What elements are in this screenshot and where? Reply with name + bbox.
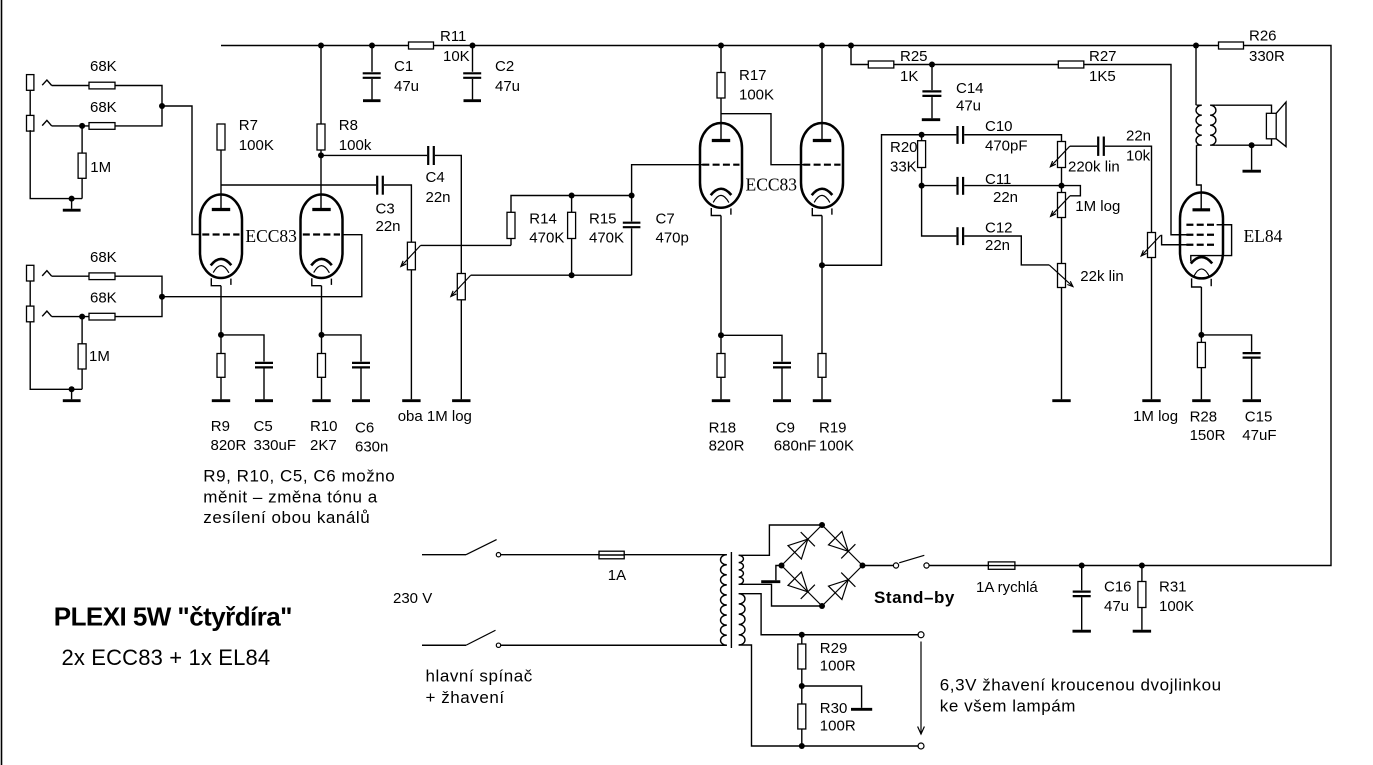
wire P1 wiper to R14	[421, 244, 511, 246]
diode D4	[829, 573, 856, 600]
node rail C2	[470, 43, 476, 49]
svg-text:100R: 100R	[820, 718, 856, 735]
wire J4 tip to R5	[52, 316, 89, 318]
svg-text:470K: 470K	[589, 229, 624, 246]
svg-text:R14: R14	[529, 211, 557, 228]
svg-text:820R: 820R	[709, 438, 745, 455]
svg-text:C11: C11	[985, 171, 1011, 188]
wire P2 wiper to R15 C7	[471, 274, 632, 276]
potentiometer P4 1M log	[1051, 186, 1070, 264]
svg-text:470K: 470K	[529, 229, 564, 246]
wire V2b cathode to tone network	[822, 135, 956, 266]
node bridge right	[860, 563, 866, 569]
resistor R30 100R	[798, 704, 806, 746]
diode D3	[788, 572, 815, 599]
svg-text:10k: 10k	[1126, 148, 1151, 165]
svg-text:R30: R30	[820, 700, 848, 717]
potentiometer P3 220k lin	[1050, 142, 1069, 186]
tube V3 EL84	[1180, 193, 1223, 288]
svg-text:C10: C10	[985, 118, 1013, 135]
svg-text:330R: 330R	[1249, 48, 1285, 65]
node R20 bottom	[919, 183, 925, 189]
capacitor C3 22n	[377, 176, 383, 195]
svg-text:68K: 68K	[90, 290, 117, 307]
node rail output transformer	[1193, 43, 1199, 49]
wire bridge plus to standby switch	[863, 565, 895, 567]
svg-text:1M log: 1M log	[1075, 198, 1120, 215]
wire T2 secondary bottom to speaker	[1215, 139, 1271, 145]
svg-text:R17: R17	[739, 67, 767, 84]
svg-text:C5: C5	[254, 418, 273, 435]
wire F1 to T1 primary	[624, 554, 727, 556]
resistor R18 820R	[712, 335, 730, 400]
resistor R29 100R	[798, 635, 806, 704]
node R15 bottom	[569, 272, 575, 278]
node bridge top	[819, 522, 825, 528]
svg-text:100k: 100k	[339, 137, 372, 154]
svg-text:2K7: 2K7	[310, 437, 337, 454]
svg-text:R9: R9	[211, 418, 230, 435]
svg-text:R20: R20	[890, 139, 918, 156]
wire HV secondary bottom to bridge	[739, 584, 822, 606]
wire C10 to 220k pot	[964, 135, 1061, 142]
wire C11 line	[922, 185, 957, 187]
wire V2b cathode	[821, 216, 823, 266]
node V2b cathode	[819, 262, 825, 268]
resistor R9 820R	[212, 335, 230, 401]
svg-text:R28: R28	[1190, 409, 1218, 426]
resistor R7 100K	[217, 124, 225, 209]
node rail R25 tap	[848, 43, 854, 49]
wire HV secondary top to bridge	[739, 525, 822, 555]
resistor R28 150R	[1192, 335, 1210, 401]
resistor R11 10K	[409, 42, 434, 49]
svg-text:R26: R26	[1249, 28, 1277, 45]
wire R20 bottom to C12	[922, 186, 957, 236]
wire J1 tip to R1	[52, 85, 89, 87]
wire T2 secondary top to speaker	[1215, 105, 1271, 113]
svg-text:150R: 150R	[1190, 427, 1226, 444]
ground A	[63, 199, 81, 211]
svg-text:ECC83: ECC83	[245, 226, 297, 246]
svg-text:C7: C7	[656, 211, 675, 228]
svg-text:47u: 47u	[495, 78, 520, 95]
svg-text:10K: 10K	[443, 48, 470, 65]
resistor R1 68K	[89, 82, 115, 89]
svg-text:C9: C9	[776, 420, 795, 437]
resistor R26 330R	[1219, 42, 1244, 49]
tube V2a ECC83	[700, 123, 742, 216]
svg-text:230 V: 230 V	[393, 590, 432, 607]
wire C12 to 22k wiper	[964, 236, 1049, 265]
svg-text:22n: 22n	[993, 189, 1018, 206]
transformer T1 HV secondary winding	[739, 555, 744, 584]
svg-text:1M: 1M	[90, 159, 111, 176]
svg-text:R9, R10, C5, C6 možno: R9, R10, C5, C6 možno	[203, 467, 395, 486]
ground bridge minus	[761, 566, 781, 582]
node J4-R6 junction	[79, 314, 85, 320]
svg-text:zesílení obou kanálů: zesílení obou kanálů	[203, 508, 370, 527]
svg-text:22n: 22n	[985, 237, 1010, 254]
node V2a cathode	[718, 332, 724, 338]
svg-text:680nF: 680nF	[774, 438, 817, 455]
svg-text:68K: 68K	[90, 249, 117, 266]
node C7 top grid	[629, 193, 635, 199]
potentiometer P5 22k lin	[1049, 264, 1073, 401]
svg-text:C16: C16	[1104, 579, 1132, 596]
svg-text:R27: R27	[1089, 48, 1117, 65]
node rail R17	[718, 43, 724, 49]
resistor R5 68K	[89, 313, 115, 320]
svg-text:R18: R18	[709, 420, 737, 437]
resistor R27 1K5	[1058, 61, 1084, 68]
svg-text:C12: C12	[985, 219, 1013, 236]
node V1a cathode	[218, 332, 224, 338]
wire S1 to F1	[500, 554, 599, 556]
wire J2 tip to R2	[52, 125, 89, 127]
svg-text:ke všem lampám: ke všem lampám	[940, 697, 1076, 716]
node ground B junction	[69, 386, 75, 392]
wire anode V1b to C4	[321, 154, 427, 156]
potentiometer P1 1M log	[401, 242, 421, 401]
node R30 bottom	[799, 743, 805, 749]
resistor R2 68K	[89, 123, 115, 130]
wire R25 tap	[851, 46, 868, 65]
wire heater winding bottom to terminal	[739, 645, 919, 746]
resistor R17 100K	[717, 46, 725, 141]
svg-text:C2: C2	[495, 58, 514, 75]
svg-text:820R: 820R	[211, 437, 247, 454]
resistor R3 1M	[78, 126, 86, 199]
ground speaker	[1243, 145, 1261, 171]
wire EL84 g3 to cathode tie	[1191, 225, 1232, 262]
svg-text:oba 1M log: oba 1M log	[398, 408, 472, 425]
svg-text:2x ECC83 + 1x EL84: 2x ECC83 + 1x EL84	[62, 645, 271, 670]
wire V2a anode to V2b grid	[721, 114, 804, 165]
wire R5 to node B	[115, 297, 162, 317]
terminal heater bottom	[918, 743, 924, 749]
resistor R4 68K	[89, 273, 115, 280]
capacitor C10 470pF	[958, 126, 964, 144]
resistor R15 470K	[568, 196, 576, 276]
capacitor C14 47u	[922, 65, 942, 120]
svg-text:měnit – změna tónu a: měnit – změna tónu a	[203, 487, 377, 506]
transformer T2 primary winding	[1196, 105, 1202, 145]
capacitor C4 22n	[428, 146, 434, 165]
wire rail R26 to right edge and down	[1015, 46, 1331, 566]
node R8 anode junction	[318, 152, 324, 158]
node V1b cathode	[319, 332, 325, 338]
svg-text:R25: R25	[900, 48, 928, 65]
wire R2 to node A	[115, 106, 162, 126]
svg-text:R19: R19	[819, 420, 847, 437]
capacitor C5 330uF	[221, 335, 273, 401]
capacitor C2 47u	[463, 46, 481, 101]
switch S1 mains upper	[422, 540, 501, 557]
wire S2 to T1 primary bottom	[500, 644, 727, 646]
bridge diamond wires	[782, 525, 863, 606]
wire B+ rail top	[221, 45, 409, 47]
resistor R19 100K	[813, 265, 831, 400]
potentiometer P2 1M log	[451, 274, 471, 401]
arrow heater direction	[918, 642, 925, 735]
wire anode V1a to C3	[221, 184, 376, 186]
wire C4 to pot P2	[435, 155, 461, 273]
resistor R20 33K	[918, 135, 926, 186]
node R20 top	[919, 132, 925, 138]
transformer T1 core	[730, 552, 732, 648]
jack J1 input A1	[27, 75, 52, 91]
svg-text:22k lin: 22k lin	[1080, 268, 1123, 285]
svg-text:22n: 22n	[426, 189, 451, 206]
svg-text:EL84: EL84	[1244, 226, 1283, 246]
svg-text:1A: 1A	[608, 567, 626, 584]
wire R25 to R27	[894, 64, 1059, 66]
wire V1a cathode	[220, 286, 222, 335]
svg-text:R15: R15	[589, 211, 617, 228]
wire node B to V1b grid	[162, 235, 362, 297]
wire S3 to F2	[929, 565, 989, 567]
svg-text:PLEXI 5W "čtyřdíra": PLEXI 5W "čtyřdíra"	[54, 602, 292, 632]
wire V1b cathode	[321, 286, 323, 335]
svg-text:R31: R31	[1159, 579, 1187, 596]
node B channel B mix	[159, 294, 165, 300]
diode D1	[788, 532, 815, 559]
resistor R6 1M	[78, 317, 86, 390]
node EL84 cathode	[1198, 332, 1204, 338]
wire grid node to V2a grid	[632, 165, 703, 196]
capacitor C11 22n	[958, 177, 964, 195]
svg-text:hlavní spínač: hlavní spínač	[426, 667, 533, 686]
wire J4 sleeve down to ground B	[30, 322, 82, 390]
capacitor C13 22n	[1098, 137, 1104, 156]
border left edge	[1, 0, 3, 765]
svg-text:C15: C15	[1245, 409, 1273, 426]
wire V2b plate to rail	[821, 46, 823, 141]
diode D2	[829, 532, 856, 559]
resistor R10 2K7	[312, 335, 330, 401]
node J2-R3 junction	[79, 123, 85, 129]
svg-text:Stand–by: Stand–by	[874, 588, 955, 607]
wire rail to output transformer primary	[1195, 46, 1197, 106]
svg-text:C14: C14	[956, 80, 984, 97]
wire T2 primary to EL84 plate	[1197, 145, 1202, 209]
svg-text:1K: 1K	[900, 68, 918, 85]
node speaker ground junction	[1249, 142, 1255, 148]
svg-text:22n: 22n	[376, 218, 401, 235]
capacitor C6 630n	[322, 335, 371, 401]
wire rail R11 to R26	[434, 45, 1219, 47]
node R29 top	[799, 632, 805, 638]
svg-text:1M log: 1M log	[1133, 408, 1178, 425]
svg-text:C6: C6	[355, 420, 374, 437]
wire heater winding top to terminal	[739, 594, 919, 635]
capacitor C1 47u	[363, 46, 381, 101]
svg-text:630n: 630n	[355, 439, 388, 456]
wire P6 wiper to EL84 grid	[1161, 235, 1188, 244]
capacitor C12 22n	[958, 227, 964, 245]
node bridge bottom	[819, 603, 825, 609]
jack J3 input B1	[27, 265, 52, 281]
wire node A to V1a grid	[162, 106, 201, 235]
node R31 tap	[1139, 563, 1145, 569]
wire R27 to EL84 screen grid	[1084, 65, 1188, 235]
svg-text:1A rychlá: 1A rychlá	[976, 579, 1038, 596]
terminal heater top	[918, 632, 924, 638]
switch S3 stand-by	[893, 555, 929, 568]
node R29 R30 mid	[799, 683, 805, 689]
wire EL84 cathode	[1200, 287, 1202, 335]
speaker LS1	[1266, 102, 1286, 146]
ground heater center tap	[802, 686, 872, 709]
capacitor C7 470p	[623, 196, 641, 276]
resistor R8 100k	[317, 46, 325, 209]
wire V2a cathode	[720, 216, 722, 336]
node C16 tap	[1079, 563, 1085, 569]
svg-text:22n: 22n	[1126, 128, 1151, 145]
svg-text:6,3V žhavení kroucenou dvojlin: 6,3V žhavení kroucenou dvojlinkou	[940, 676, 1222, 695]
svg-text:100K: 100K	[1159, 598, 1194, 615]
svg-text:ECC83: ECC83	[746, 174, 798, 194]
capacitor C9 680nF	[721, 335, 791, 400]
wire J3 sleeve to J4 sleeve	[29, 281, 31, 306]
svg-text:100K: 100K	[239, 137, 274, 154]
svg-text:47u: 47u	[1104, 598, 1129, 615]
node rail V2b plate	[819, 43, 825, 49]
wire J2 sleeve down to ground A	[30, 130, 82, 199]
svg-text:+ žhavení: + žhavení	[426, 688, 505, 707]
svg-text:R11: R11	[440, 28, 466, 45]
node bridge left	[779, 563, 785, 569]
svg-text:1K5: 1K5	[1089, 68, 1116, 85]
svg-text:R10: R10	[310, 418, 338, 435]
svg-text:R7: R7	[239, 117, 258, 134]
capacitor C15 47uF	[1201, 335, 1261, 401]
tube V1a ECC83	[200, 195, 242, 286]
resistor R14 470K	[507, 196, 632, 246]
node rail R8	[318, 43, 324, 49]
svg-text:100K: 100K	[819, 438, 854, 455]
svg-text:100K: 100K	[739, 87, 774, 104]
ground B	[63, 389, 81, 400]
wire P3 wiper to C13	[1070, 145, 1097, 147]
wire P4 wiper jog	[1062, 186, 1081, 196]
svg-text:470pF: 470pF	[985, 138, 1028, 155]
svg-text:R8: R8	[339, 117, 358, 134]
wire C13 to master pot P6	[1105, 146, 1152, 232]
transformer T1 heater winding	[739, 594, 745, 645]
svg-text:47u: 47u	[394, 78, 419, 95]
resistor R31 100K	[1133, 566, 1151, 632]
resistor R25 1K	[868, 61, 894, 68]
tube V2b ECC83	[801, 123, 843, 216]
node R15 top	[569, 193, 575, 199]
switch S2 mains lower	[422, 630, 501, 647]
jack J4 input B2	[27, 306, 52, 322]
transformer T2 secondary winding	[1210, 105, 1216, 145]
capacitor C16 47u	[1073, 566, 1091, 632]
transformer T1 primary winding	[721, 555, 727, 646]
wire J3 tip to R4	[52, 275, 89, 277]
wire R1 to node A	[115, 86, 162, 107]
potentiometer P6 1M log master	[1141, 233, 1161, 401]
wire R4 to node B	[115, 276, 162, 297]
wire C11 to chain node	[964, 185, 1061, 187]
fuse F2 1A rychla	[988, 562, 1015, 569]
svg-text:33K: 33K	[890, 159, 917, 176]
node C14 tap	[929, 62, 935, 68]
svg-text:47u: 47u	[956, 98, 981, 115]
tube V1b ECC83	[301, 195, 343, 286]
svg-text:68K: 68K	[90, 99, 117, 116]
svg-text:R29: R29	[820, 640, 848, 657]
svg-text:330uF: 330uF	[254, 437, 297, 454]
node rail C1	[369, 43, 375, 49]
wire C3 to pot P1	[384, 185, 412, 242]
node chain C11	[1059, 183, 1065, 189]
svg-text:68K: 68K	[90, 58, 117, 75]
svg-text:470p: 470p	[656, 229, 689, 246]
svg-text:C3: C3	[376, 201, 395, 218]
svg-text:C1: C1	[394, 58, 413, 75]
node A channel A mix	[159, 103, 165, 109]
node ground A junction	[69, 196, 75, 202]
fuse F1 1A	[599, 551, 624, 559]
jack J2 input A2	[27, 115, 52, 131]
svg-text:1M: 1M	[89, 348, 110, 365]
svg-text:C4: C4	[426, 169, 445, 186]
svg-text:47uF: 47uF	[1242, 427, 1276, 444]
wire J1 sleeve to J2 sleeve	[29, 90, 31, 115]
svg-text:220k lin: 220k lin	[1068, 159, 1120, 176]
svg-text:100R: 100R	[820, 658, 856, 675]
